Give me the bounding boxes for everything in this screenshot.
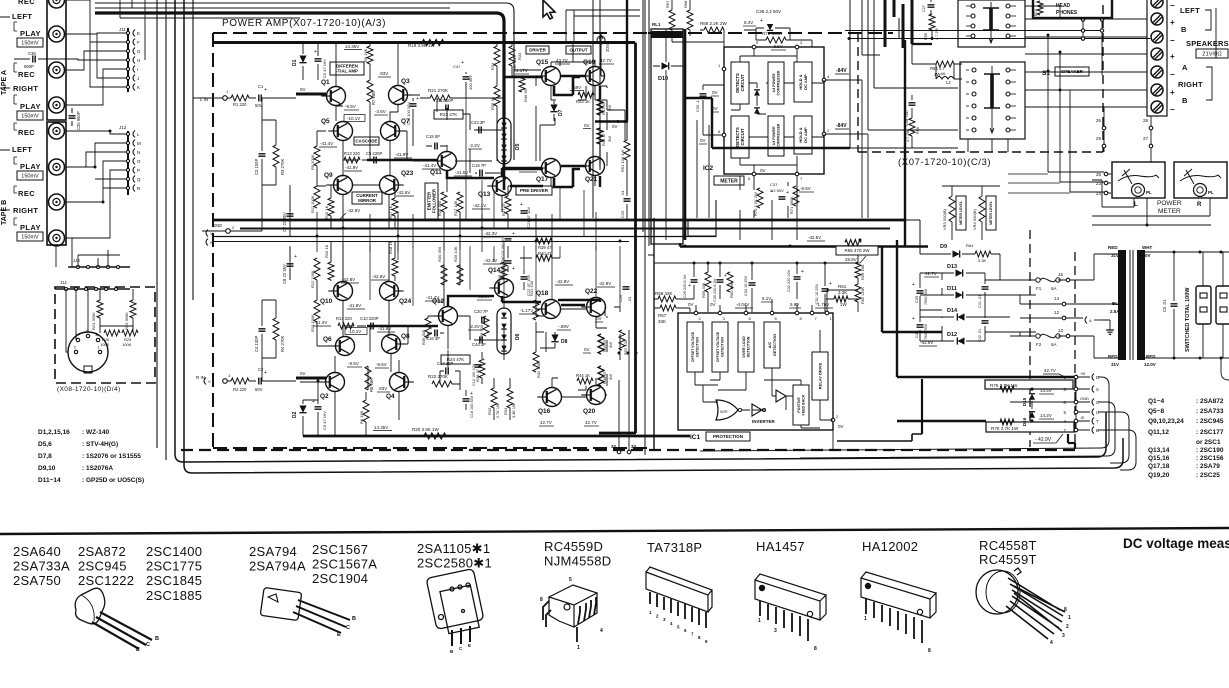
thick vertical bus d <box>921 379 923 434</box>
RCA jack J8 <box>49 230 65 246</box>
svg-text:WHT: WHT <box>1142 245 1152 250</box>
svg-text:D8: D8 <box>561 339 568 345</box>
speaker switch box upper <box>958 0 1025 47</box>
svg-text:R60 33K: R60 33K <box>729 282 734 298</box>
capacitor C35 .1 <box>700 94 707 96</box>
capacitor C33 10 25V <box>749 283 756 285</box>
dashed C3 bottom <box>858 151 1103 153</box>
svg-text:-84V: -84V <box>836 123 847 129</box>
svg-text:CASCODE: CASCODE <box>356 139 378 144</box>
dashed border bottom <box>181 449 1075 451</box>
svg-text:+: + <box>1170 18 1175 27</box>
diode D2 <box>299 406 306 413</box>
svg-text:R74: R74 <box>1034 9 1038 16</box>
svg-text:+: + <box>264 87 267 93</box>
svg-text:: WZ-140: : WZ-140 <box>82 429 109 436</box>
capacitor C42 .01 <box>982 321 989 323</box>
wire pair down <box>566 10 640 42</box>
svg-text:GND: GND <box>213 223 222 228</box>
IC2 pins <box>752 45 756 49</box>
capacitor C30 6.3V <box>717 280 724 282</box>
svg-text:+B: +B <box>1080 371 1085 376</box>
svg-text:: STV-4H(G): : STV-4H(G) <box>82 441 118 448</box>
capacitor C3 100P <box>259 154 266 156</box>
svg-text:D14: D14 <box>947 308 958 314</box>
svg-text:J12: J12 <box>119 125 127 130</box>
wires left of relay <box>593 0 649 246</box>
svg-text:+: + <box>1170 52 1175 61</box>
IC1 block outline <box>678 313 833 430</box>
svg-text:2SA640: 2SA640 <box>13 544 61 559</box>
thick output bus right <box>599 432 636 435</box>
IC2 inner box 1/4 POWER COMPRESSER lower <box>768 116 784 156</box>
svg-text:: 2SC156: : 2SC156 <box>1196 455 1224 462</box>
svg-text:-10.1V: -10.1V <box>348 329 361 334</box>
svg-text:Q: Q <box>137 177 141 182</box>
svg-text:R31: R31 <box>490 62 495 70</box>
svg-text:R68 39K: R68 39K <box>683 0 688 8</box>
svg-text:2SC1775: 2SC1775 <box>146 559 202 574</box>
capacitor C22 47 10V <box>521 277 528 279</box>
resistor R57 33K <box>660 305 676 311</box>
svg-text:R28 10K: R28 10K <box>453 246 458 262</box>
switch contacts upper <box>971 4 975 8</box>
svg-text:-4.04V: -4.04V <box>736 302 749 307</box>
connector feed wires <box>1076 377 1090 430</box>
big loop wire 2 <box>800 402 1115 458</box>
svg-text:N: N <box>137 150 140 155</box>
capacitor C5 47 16V <box>315 59 322 61</box>
svg-text:C36: C36 <box>28 51 36 56</box>
resistor R27 10K <box>457 192 463 212</box>
svg-text:R24 390K: R24 390K <box>91 312 96 330</box>
capacitor C27 <box>928 5 935 7</box>
wires upper diff stage <box>317 42 407 228</box>
svg-text:Q19,20: Q19,20 <box>1148 472 1170 479</box>
wire input to Q2 <box>262 380 296 382</box>
svg-text:H: H <box>137 58 140 63</box>
svg-text:LEFT: LEFT <box>12 145 32 154</box>
wire C39 C40 column <box>920 273 942 341</box>
capacitor C7 22 35V <box>287 214 294 216</box>
bracket lines speakers <box>1205 8 1216 100</box>
svg-text:METER: METER <box>720 178 738 184</box>
pin P <box>126 168 129 171</box>
transistor Q13 <box>493 177 512 196</box>
svg-text:METER LEVEL: METER LEVEL <box>989 201 993 225</box>
pin Q <box>126 177 129 180</box>
svg-text:C7 22 35V: C7 22 35V <box>282 212 287 232</box>
badge 150mV <box>17 38 43 47</box>
wire to edge <box>0 87 10 89</box>
capacitor C28 .047 <box>909 103 916 105</box>
wire top <box>95 7 450 9</box>
svg-text:Q24: Q24 <box>399 298 412 305</box>
diode D10 <box>662 62 669 69</box>
svg-text:-42.9V: -42.9V <box>598 281 611 286</box>
svg-text:100K: 100K <box>122 342 132 347</box>
vertical wires to meter <box>1048 35 1070 192</box>
dashed C3 right <box>1102 5 1104 152</box>
svg-text:C5 .01: C5 .01 <box>1162 299 1167 312</box>
svg-text:25: 25 <box>1096 172 1102 177</box>
badge DIFFERENTIAL AMP <box>330 62 364 75</box>
secondary wires <box>1145 252 1229 358</box>
svg-text:0V: 0V <box>700 138 706 143</box>
svg-text:R2 220: R2 220 <box>233 387 247 392</box>
capacitor C26 .01 <box>623 287 630 289</box>
AC outlet 1 <box>1196 286 1211 324</box>
svg-text:4: 4 <box>1050 640 1053 646</box>
wire gnd <box>202 185 262 231</box>
2SA1105 package <box>426 569 484 646</box>
RCA jack J1 <box>49 0 65 8</box>
IC1 inner wires <box>695 330 833 428</box>
terminal (A) <box>1085 317 1087 324</box>
svg-text:0V: 0V <box>612 124 618 129</box>
transistor Q17 <box>542 159 561 178</box>
svg-text:+: + <box>912 282 915 288</box>
svg-text:-42.9V: -42.9V <box>556 279 569 284</box>
svg-text:METER: METER <box>1158 208 1181 215</box>
resistor R63 18K <box>855 262 861 278</box>
svg-text:D5,6: D5,6 <box>38 441 52 448</box>
junction dots output <box>618 352 621 355</box>
svg-text:+: + <box>264 370 267 376</box>
svg-text:28: 28 <box>1143 118 1149 123</box>
svg-text:C4 100P: C4 100P <box>254 335 259 352</box>
svg-text:2SC1222: 2SC1222 <box>78 573 134 588</box>
svg-text:TAPE B: TAPE B <box>1 200 8 225</box>
transistor Q24 <box>380 282 399 301</box>
svg-text:P: P <box>137 168 140 173</box>
svg-text:TA7318P: TA7318P <box>647 540 702 555</box>
svg-text:R8 68K: R8 68K <box>369 378 374 392</box>
svg-text:PHONES: PHONES <box>1056 10 1078 16</box>
resistor R9 100K <box>314 146 320 166</box>
svg-text:C8 22 35V: C8 22 35V <box>282 264 287 284</box>
svg-text:OFFSET VOLTAGE: OFFSET VOLTAGE <box>716 331 720 362</box>
svg-text:14: 14 <box>1054 296 1060 301</box>
TO-126 package 2SA794 <box>260 587 350 633</box>
dashed top extension to C/3 <box>648 32 893 34</box>
svg-text:O: O <box>137 159 141 164</box>
svg-text:+: + <box>724 273 727 279</box>
svg-text:2.5A: 2.5A <box>1110 309 1120 314</box>
svg-text:+: + <box>912 316 915 322</box>
svg-text:R45 56: R45 56 <box>523 88 528 102</box>
resistor R26 300 <box>483 316 489 336</box>
svg-text:R: R <box>1197 202 1202 208</box>
TO-99 can package RC4558T <box>976 568 1065 639</box>
svg-text:150mV: 150mV <box>21 173 39 179</box>
RCA jack J7 <box>49 194 65 210</box>
transistor Q20 <box>587 386 606 405</box>
svg-text:RED: RED <box>1108 245 1118 250</box>
svg-text:8.4V: 8.4V <box>744 20 753 25</box>
svg-text:-42.6V: -42.6V <box>372 274 385 279</box>
svg-text:+: + <box>1170 88 1175 97</box>
resistor R50 47 3W <box>598 334 604 354</box>
svg-text:Q13,14: Q13,14 <box>1148 447 1170 454</box>
svg-text:-41.4V: -41.4V <box>314 320 327 325</box>
capacitor C11 100 10V <box>410 104 417 106</box>
svg-text:D13: D13 <box>947 264 957 270</box>
svg-text:0V: 0V <box>300 371 306 376</box>
capacitor C1 <box>249 97 256 99</box>
svg-text:R9 100K: R9 100K <box>310 154 315 170</box>
resistor R71 680K <box>793 186 799 206</box>
wire top <box>120 17 300 19</box>
svg-text:Q3: Q3 <box>401 78 410 85</box>
svg-text:C24 100 50V: C24 100 50V <box>501 257 505 280</box>
resistor R10 100K <box>314 300 320 322</box>
svg-text:E: E <box>136 647 140 653</box>
resistor R37 47 <box>505 196 511 214</box>
resistor R51 100 1W <box>624 140 630 160</box>
thick emitter path Q17 <box>554 169 580 187</box>
mouse cursor <box>543 0 555 19</box>
relay right edge thick <box>684 29 687 240</box>
svg-text:R IN: R IN <box>196 375 205 380</box>
svg-text:25.8V: 25.8V <box>845 257 857 262</box>
ground near transformer <box>1106 330 1114 334</box>
svg-text:C25: C25 <box>620 210 625 218</box>
svg-text:6A: 6A <box>1051 286 1057 291</box>
bus wire <box>165 0 167 460</box>
resistor R25 100K <box>122 330 138 336</box>
svg-text:C42 .01: C42 .01 <box>978 329 982 342</box>
pin I <box>126 67 129 70</box>
svg-text:W: W <box>210 240 214 245</box>
svg-text:C32 220 16V: C32 220 16V <box>787 269 791 292</box>
speaker terminal 1 <box>1151 0 1163 8</box>
svg-text:R51 100 1W: R51 100 1W <box>620 150 625 172</box>
svg-text:1: 1 <box>577 645 580 651</box>
svg-text:0V: 0V <box>688 302 694 307</box>
svg-text:8: 8 <box>928 648 931 654</box>
resistor R26 100K <box>104 330 120 336</box>
svg-text:DETECTION: DETECTION <box>773 334 777 356</box>
bus wire <box>192 0 194 300</box>
junctions <box>1047 34 1050 37</box>
svg-text:-41.9V: -41.9V <box>345 165 358 170</box>
headphones box <box>1033 0 1112 18</box>
DIN socket <box>68 332 108 372</box>
resistor R45 56 <box>519 76 525 92</box>
rail dots right <box>647 219 650 222</box>
svg-text:-10.1V: -10.1V <box>347 116 360 121</box>
svg-text:14.2V: 14.2V <box>1040 413 1052 418</box>
svg-text:A/C: A/C <box>768 341 772 348</box>
svg-text:Q21: Q21 <box>585 176 598 183</box>
svg-text:R62 120K: R62 120K <box>861 287 865 304</box>
svg-text:A: A <box>1182 63 1188 72</box>
svg-text:R47 47: R47 47 <box>601 101 606 115</box>
svg-text:IC2: IC2 <box>703 165 714 172</box>
svg-text:PLAY: PLAY <box>20 223 41 232</box>
svg-text:HA1457: HA1457 <box>756 539 805 554</box>
bracket <box>14 186 17 193</box>
svg-text:2SA794A: 2SA794A <box>249 559 306 574</box>
IC2 inner box HOLD DC AMP lower <box>794 116 812 154</box>
svg-text:100 35V: 100 35V <box>468 75 473 90</box>
svg-text:−: − <box>1170 70 1175 79</box>
svg-text:8: 8 <box>1064 607 1067 613</box>
IC1 NOR gate <box>716 400 738 420</box>
meter L lamp PL <box>1132 184 1145 197</box>
svg-text:C9 220P: C9 220P <box>366 151 383 156</box>
capacitor C4 100P <box>259 329 266 331</box>
svg-text:R1 220: R1 220 <box>233 102 247 107</box>
svg-text:: 2SC177: : 2SC177 <box>1196 429 1224 436</box>
svg-text:+: + <box>294 218 297 224</box>
transistor Q14 <box>495 279 514 298</box>
resistor R30 390 <box>441 265 447 285</box>
wire thin from top <box>514 11 541 70</box>
svg-text:+: + <box>416 96 419 102</box>
wires to meters <box>1048 172 1111 193</box>
svg-text:2.7K 1W: 2.7K 1W <box>496 403 500 418</box>
svg-text:E: E <box>468 643 471 648</box>
resistor R38 47 <box>501 262 507 278</box>
capacitor C23 100 50V <box>505 239 512 241</box>
svg-text:D11: D11 <box>947 286 957 292</box>
svg-text:Q5~8: Q5~8 <box>1148 408 1164 415</box>
svg-text:COMPRESSER: COMPRESSER <box>777 123 781 148</box>
svg-text:42.7V: 42.7V <box>1044 368 1056 373</box>
resistor R16 1K <box>328 262 334 280</box>
svg-text:V: V <box>210 231 213 236</box>
diode D15 <box>1029 394 1035 400</box>
svg-text:REC: REC <box>18 128 35 137</box>
pin E <box>126 31 129 34</box>
transformer primary bar <box>1118 250 1126 360</box>
resistor R38 47 <box>479 360 485 378</box>
transistor Q4 <box>390 373 409 392</box>
svg-text:R20 3.9K 1W: R20 3.9K 1W <box>412 427 440 432</box>
resistor R6 15K <box>363 400 369 422</box>
svg-text:Q2: Q2 <box>320 393 329 400</box>
svg-text:26: 26 <box>1096 118 1102 123</box>
big loop wire 4 <box>1098 430 1136 470</box>
svg-text:Q16: Q16 <box>538 408 551 415</box>
thick wire output Q15 Q19 <box>561 75 586 77</box>
capacitor C2 <box>249 380 256 382</box>
svg-text:K: K <box>137 85 140 90</box>
svg-text:METER LEVEL: METER LEVEL <box>959 201 963 225</box>
resistor R11 100K <box>314 186 320 208</box>
svg-text:+: + <box>512 266 515 272</box>
svg-text:F2: F2 <box>1036 342 1042 347</box>
svg-text:: 1S2076A: : 1S2076A <box>82 465 113 472</box>
svg-text:R71 680K: R71 680K <box>789 196 794 214</box>
svg-text:+: + <box>314 49 317 55</box>
svg-text:D2: D2 <box>292 411 298 418</box>
IC2 diode lower <box>754 108 760 114</box>
svg-text:-3.6V: -3.6V <box>375 109 386 114</box>
capacitor C6 47 16V <box>315 407 322 409</box>
svg-text:R42 100: R42 100 <box>536 362 541 378</box>
svg-text:Q17,18: Q17,18 <box>1148 463 1170 470</box>
thick column x627 <box>626 0 628 121</box>
svg-text:C14 10P: C14 10P <box>437 361 454 366</box>
svg-text:R33: R33 <box>517 52 522 60</box>
dashed PSU border 2 <box>1074 252 1076 447</box>
badge CASCODE <box>354 137 379 145</box>
svg-text:(X08-1720-10)(D/4): (X08-1720-10)(D/4) <box>57 386 121 393</box>
thick vertical bus c <box>904 40 906 246</box>
svg-text:D7,8: D7,8 <box>38 453 52 460</box>
svg-text:2SA750: 2SA750 <box>13 573 61 588</box>
rail junction dots <box>289 219 292 222</box>
svg-text:: 2SA733: : 2SA733 <box>1196 408 1224 415</box>
svg-text:R76 2.7K 1W: R76 2.7K 1W <box>991 426 1019 431</box>
svg-text:SPEAKERS: SPEAKERS <box>1186 39 1229 48</box>
svg-text:F: F <box>137 40 140 45</box>
svg-text:C10 220P: C10 220P <box>360 316 379 321</box>
svg-text:D16: D16 <box>1022 417 1027 426</box>
vertical badge EMITTER FOLLOWER <box>425 183 438 219</box>
badge PRE DRIVER <box>516 186 552 195</box>
svg-text:R39 47: R39 47 <box>538 245 552 250</box>
svg-text:1: 1 <box>864 616 867 622</box>
svg-text:Q20: Q20 <box>583 408 596 415</box>
rail +42.7V thick <box>897 376 1074 378</box>
svg-text:HA12002: HA12002 <box>862 539 918 554</box>
bracket <box>14 218 17 225</box>
svg-text:3W: 3W <box>608 374 613 380</box>
svg-text:.01: .01 <box>627 296 632 302</box>
DIP-8 package RC4559D <box>543 585 597 642</box>
svg-text:R58 33K: R58 33K <box>655 291 673 296</box>
svg-text:5.1V: 5.1V <box>762 296 771 301</box>
transformer core lines <box>1130 250 1133 360</box>
svg-text:150mV: 150mV <box>21 234 39 240</box>
IC2 inner wires <box>731 49 824 172</box>
svg-text:42.7V: 42.7V <box>540 420 552 425</box>
svg-text:B: B <box>1182 96 1188 105</box>
svg-text:C6 47 16V: C6 47 16V <box>322 411 327 430</box>
svg-text:C27: C27 <box>922 5 926 12</box>
psu terminal wires <box>1010 254 1118 358</box>
svg-text:REC: REC <box>18 0 35 6</box>
transistor Q3 <box>389 86 408 105</box>
speaker terminal 5 <box>1151 66 1163 78</box>
svg-text:31V: 31V <box>1111 253 1119 258</box>
wires near IC2 left <box>697 120 709 218</box>
transistor Q11 <box>438 152 457 171</box>
svg-text:C3 100P: C3 100P <box>254 158 259 175</box>
svg-text:R63 18K: R63 18K <box>860 264 865 280</box>
pin (W) <box>206 239 208 246</box>
pin G <box>126 49 129 52</box>
wire IC2 to right <box>826 80 868 218</box>
svg-text:VR3 500(B): VR3 500(B) <box>942 208 947 230</box>
svg-text:0V: 0V <box>1145 253 1151 258</box>
svg-text:0V: 0V <box>838 424 844 429</box>
transistor Q23 <box>380 176 399 195</box>
svg-text:Q10: Q10 <box>320 298 333 305</box>
svg-text:Q6: Q6 <box>323 336 332 343</box>
svg-text:C21 47 10V: C21 47 10V <box>526 207 531 228</box>
resistor R39 47 <box>536 238 552 244</box>
svg-text:PRE DRIVER: PRE DRIVER <box>520 188 549 193</box>
IC1 pins top <box>694 311 698 315</box>
svg-text:+: + <box>512 231 515 237</box>
speaker switch box lower <box>960 62 1025 139</box>
svg-text:R40 47: R40 47 <box>538 251 552 256</box>
